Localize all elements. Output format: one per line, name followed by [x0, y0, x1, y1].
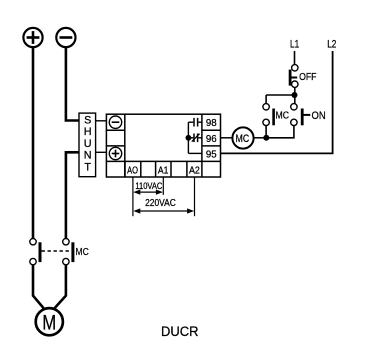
svg-text:95: 95 — [206, 149, 217, 160]
svg-text:DUCR: DUCR — [161, 323, 199, 339]
svg-text:MC: MC — [76, 246, 90, 258]
svg-text:98: 98 — [206, 118, 217, 129]
svg-text:AO: AO — [127, 166, 138, 177]
svg-text:OFF: OFF — [299, 72, 316, 83]
svg-text:S: S — [84, 114, 91, 126]
svg-text:A1: A1 — [158, 166, 169, 177]
svg-text:H: H — [84, 126, 92, 138]
svg-text:L2: L2 — [327, 38, 336, 50]
svg-text:A2: A2 — [189, 166, 200, 177]
svg-text:96: 96 — [206, 134, 217, 145]
svg-text:M: M — [42, 312, 56, 335]
svg-text:MC: MC — [276, 111, 290, 122]
svg-text:N: N — [84, 150, 92, 162]
svg-text:T: T — [84, 162, 91, 174]
svg-text:L1: L1 — [290, 38, 299, 50]
svg-text:MC: MC — [236, 133, 250, 145]
svg-text:U: U — [84, 138, 92, 150]
svg-text:220VAC: 220VAC — [145, 198, 176, 209]
svg-text:ON: ON — [312, 110, 326, 122]
